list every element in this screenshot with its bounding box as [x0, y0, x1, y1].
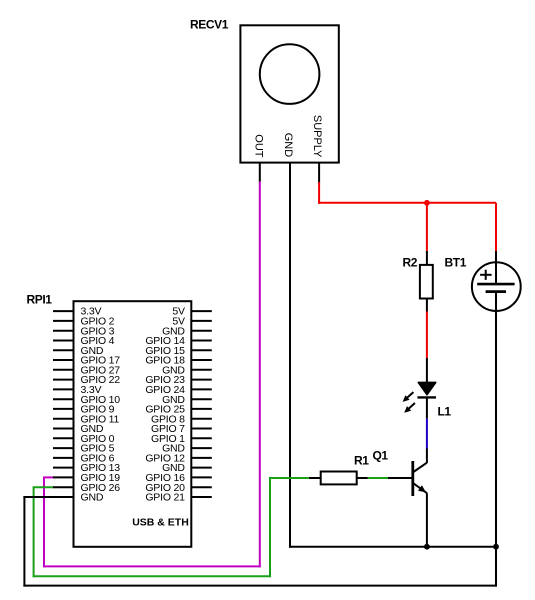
wire blue LED to collector — [426, 419, 428, 449]
Q1 emitter arrowhead — [418, 485, 426, 492]
RPI1 right pins — [191, 311, 212, 497]
BT1 plus sign — [480, 274, 492, 276]
wire magenta bottom horizontal — [43, 565, 261, 567]
wire red supply horizontal y203 — [318, 202, 496, 204]
wire red branch to R2 — [426, 203, 428, 251]
wire magenta OUT vertical — [259, 182, 261, 568]
svg-text:GND: GND — [282, 133, 294, 158]
svg-text:USB & ETH: USB & ETH — [132, 516, 189, 528]
LED top lead — [426, 358, 428, 382]
svg-text:RECV1: RECV1 — [190, 18, 229, 32]
wire magenta left vertical — [43, 477, 45, 567]
R2 bottom lead — [426, 299, 428, 312]
wire black bottom horizontal — [23, 585, 497, 587]
BT1 long plate — [477, 283, 514, 286]
wire black RPI GND to left — [23, 496, 54, 498]
svg-text:R1: R1 — [354, 453, 369, 467]
LED arrow 2 — [408, 403, 415, 410]
RECV1 SUPPLY pin stub — [318, 163, 320, 182]
wire red supply vertical — [318, 182, 320, 204]
svg-text:RPI1: RPI1 — [27, 293, 53, 307]
svg-text:R2: R2 — [403, 255, 418, 269]
R1 left lead — [309, 477, 321, 479]
svg-text:BT1: BT1 — [445, 255, 467, 269]
junction dot red — [424, 200, 430, 206]
Q1 base lead — [388, 477, 413, 479]
wire black right vertical to BT1 — [495, 292, 497, 587]
svg-text:GPIO 21: GPIO 21 — [145, 492, 185, 504]
R1 right lead — [357, 477, 368, 479]
RECV1 OUT pin stub — [259, 163, 261, 182]
LED L1 cathode bar — [417, 396, 436, 398]
Q1 collector slant — [413, 463, 427, 472]
resistor R2 body — [420, 265, 433, 299]
svg-text:SUPPLY: SUPPLY — [311, 115, 323, 158]
RECV1 lens circle — [260, 44, 320, 104]
wire green left vertical — [33, 487, 35, 577]
svg-text:L1: L1 — [438, 405, 452, 419]
BT1 bottom lead inside — [495, 292, 497, 312]
RPI1 left pins — [53, 311, 74, 497]
junction dot emitter-gnd — [424, 544, 430, 550]
wire ground horizontal y547 — [289, 546, 496, 548]
RECV1 GND pin wire down — [289, 163, 291, 548]
LED bottom lead — [426, 397, 428, 418]
Q1 emitter slant — [413, 483, 427, 493]
RPI1 left pin labels — [81, 306, 121, 504]
R2 top lead — [426, 251, 428, 265]
battery BT1 circle — [472, 262, 521, 311]
IR receiver RECV1 body — [240, 25, 338, 162]
wire black left vertical — [23, 496, 25, 587]
wire green base segment — [368, 477, 388, 479]
svg-text:OUT: OUT — [253, 134, 265, 158]
Raspberry Pi RPI1 body — [74, 301, 192, 547]
svg-text:GND: GND — [81, 492, 104, 504]
wire green to GPIO26 pin — [33, 486, 54, 488]
wire green bottom horizontal — [33, 575, 271, 577]
BT1 top lead inside — [495, 251, 497, 284]
Q1 collector vertical — [426, 449, 428, 464]
LED L1 triangle — [418, 382, 436, 394]
wire green R1 to left — [270, 477, 309, 479]
Q1 emitter vertical — [426, 493, 428, 547]
LED arrow 1 — [406, 392, 413, 399]
wire magenta to GPIO19 pin — [43, 476, 54, 478]
wire green vertical x270 — [269, 477, 271, 577]
wire red BT1 top lead — [495, 203, 497, 251]
wire red R2 to LED — [426, 312, 428, 359]
resistor R1 body — [321, 472, 357, 485]
BT1 short plate — [486, 290, 506, 293]
transistor Q1 base bar — [411, 461, 414, 496]
junction dot gnd-bt1 — [493, 544, 499, 550]
RPI1 right pin labels — [145, 306, 185, 504]
svg-text:Q1: Q1 — [373, 448, 389, 462]
